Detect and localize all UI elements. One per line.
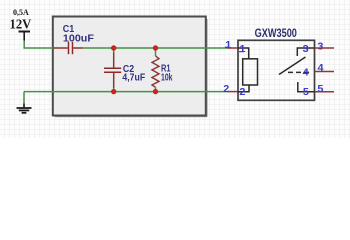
svg-text:4: 4 — [318, 63, 324, 74]
svg-text:100uF: 100uF — [63, 33, 95, 45]
svg-text:5: 5 — [303, 87, 309, 98]
svg-text:3: 3 — [317, 42, 323, 53]
svg-text:10k: 10k — [161, 72, 173, 84]
svg-text:5: 5 — [317, 84, 323, 95]
svg-text:3: 3 — [303, 44, 309, 55]
svg-text:1: 1 — [225, 40, 231, 51]
svg-text:1: 1 — [240, 44, 246, 55]
svg-text:2: 2 — [239, 87, 245, 98]
svg-text:GXW3500: GXW3500 — [255, 26, 297, 40]
svg-text:2: 2 — [223, 84, 229, 95]
svg-text:4,7uF: 4,7uF — [122, 72, 145, 84]
svg-text:4: 4 — [303, 68, 309, 79]
svg-text:12V: 12V — [10, 16, 32, 31]
